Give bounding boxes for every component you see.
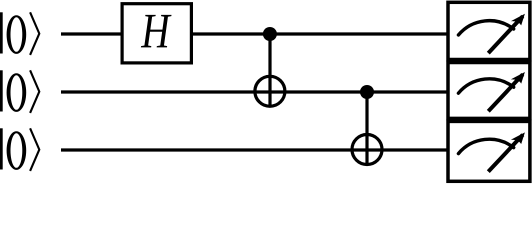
measurement M2 meter needle [488, 135, 523, 172]
CNOT2 control dot on q1 [360, 85, 374, 99]
wire q1 [61, 90, 448, 93]
measurement M2 meter arrowhead [511, 132, 525, 144]
CNOT1 target oplus on q1 [255, 76, 285, 106]
CNOT1 control dot on q0 [263, 27, 277, 41]
measurement M1 meter arrowhead [511, 72, 525, 84]
measurement M1 meter arc [458, 79, 513, 93]
measurement M0 meter needle [488, 16, 523, 53]
measurement M0 box [448, 2, 530, 59]
CNOT1 vertical wire q0->q1 [268, 34, 271, 106]
CNOT2 vertical wire q1->q2 [365, 92, 368, 165]
measurement M2 meter arc [458, 139, 513, 153]
qubit label ket |0> q2 [0, 128, 39, 171]
qubit label ket |0> q0 [0, 12, 39, 55]
measurement M1 meter needle [488, 74, 523, 111]
H gate U1 label [141, 15, 172, 48]
qubit label ket |0> q1 [0, 70, 39, 113]
CNOT2 target oplus on q2 [352, 135, 382, 165]
wire q2 [61, 148, 448, 151]
H gate U1 box [122, 4, 191, 63]
measurement M0 meter arc [458, 21, 513, 35]
measurement M2 box [448, 121, 530, 181]
measurement M0 meter arrowhead [511, 14, 525, 26]
wire q0 [61, 32, 448, 35]
measurement M1 box [448, 63, 530, 119]
